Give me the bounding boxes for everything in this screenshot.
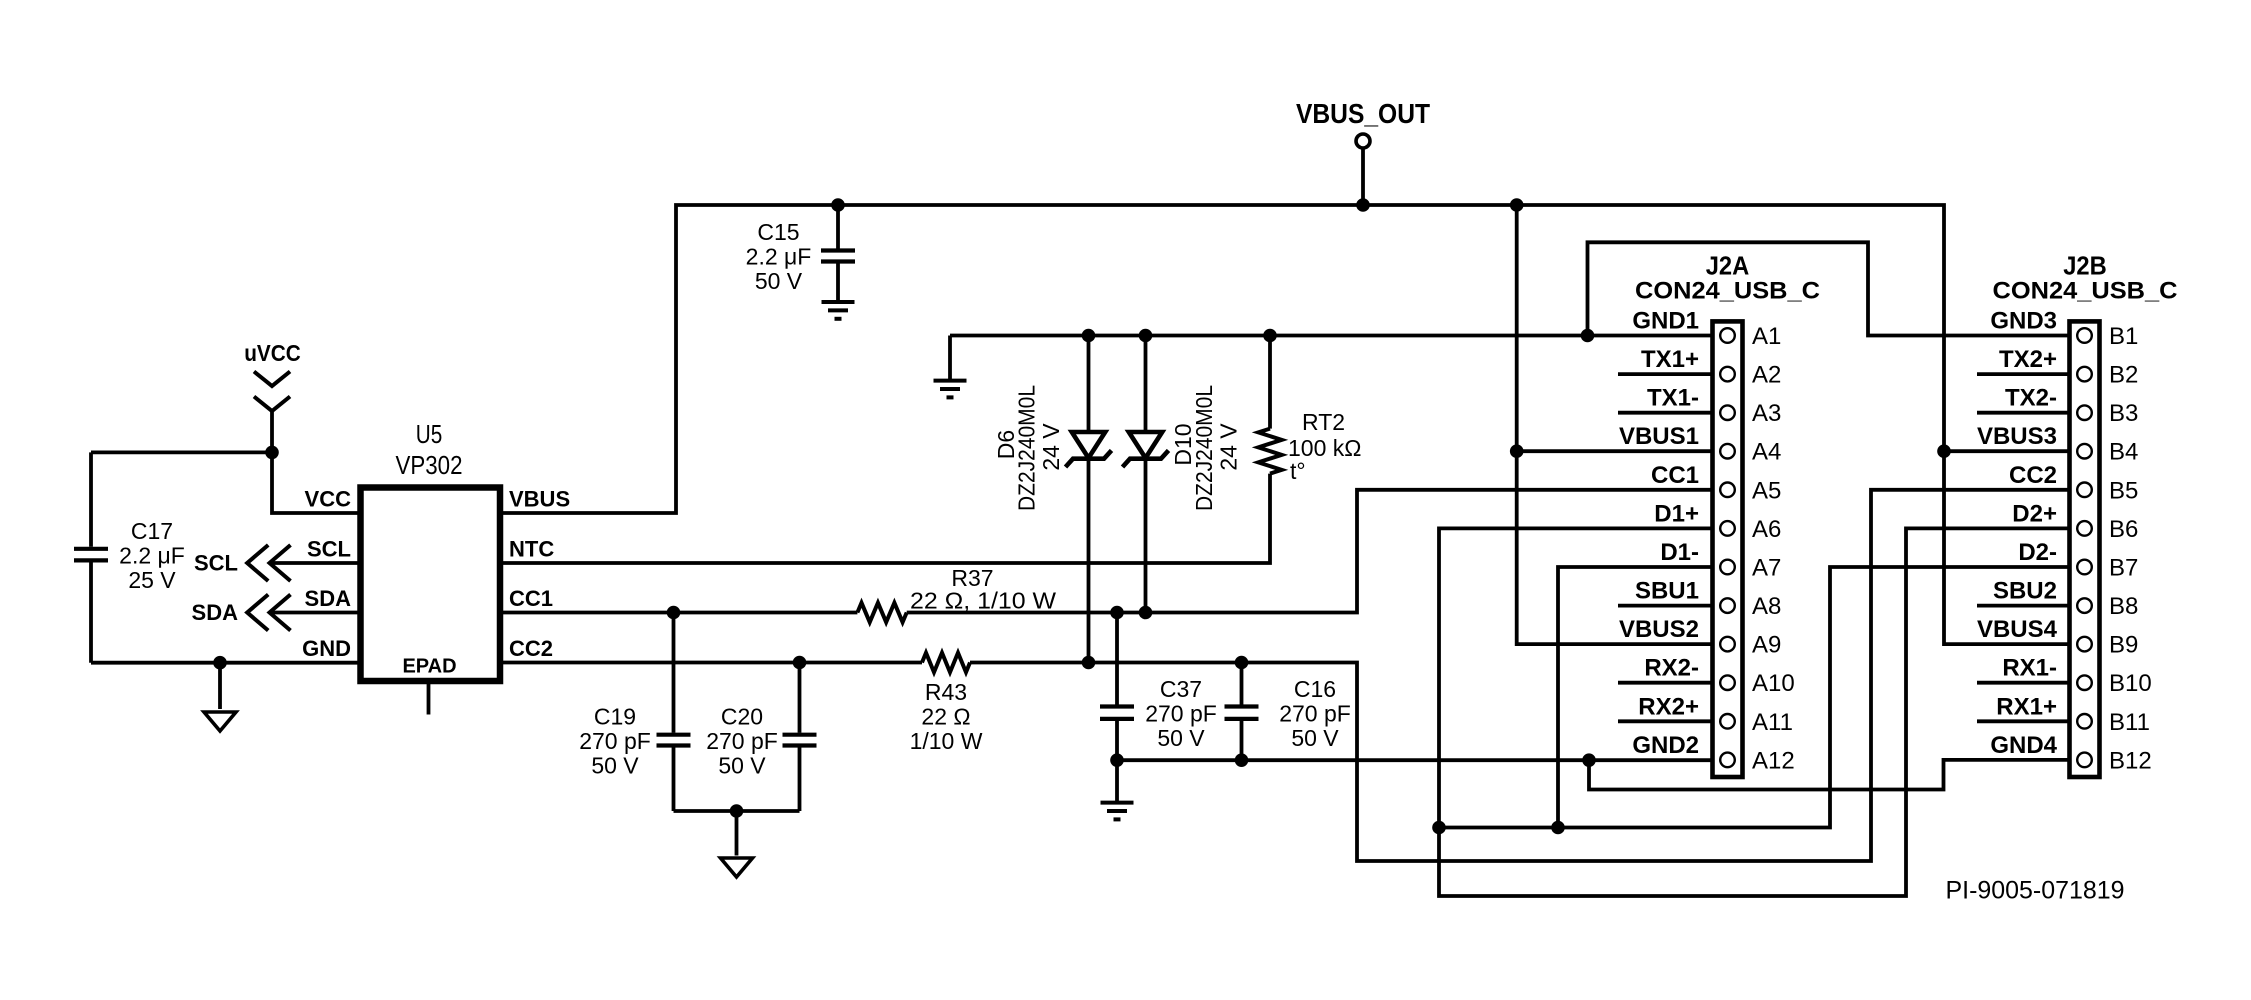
svg-text:SBU2: SBU2: [1993, 578, 2057, 605]
svg-text:A11: A11: [1752, 709, 1793, 736]
svg-text:270 pF: 270 pF: [1279, 701, 1351, 727]
svg-text:VCC: VCC: [305, 487, 352, 512]
svg-text:VBUS3: VBUS3: [1977, 423, 2057, 450]
svg-text:U5: U5: [416, 419, 443, 449]
svg-text:C37: C37: [1160, 676, 1202, 702]
svg-text:A3: A3: [1752, 400, 1781, 427]
svg-text:A9: A9: [1752, 632, 1781, 659]
svg-text:B1: B1: [2109, 323, 2138, 350]
svg-text:J2A: J2A: [1706, 251, 1750, 281]
svg-text:t°: t°: [1290, 458, 1306, 484]
svg-text:VBUS: VBUS: [509, 487, 570, 512]
svg-text:B2: B2: [2109, 362, 2138, 389]
svg-text:uVCC: uVCC: [244, 340, 301, 366]
svg-text:RT2: RT2: [1302, 409, 1345, 435]
svg-text:C19: C19: [594, 704, 636, 730]
svg-text:VBUS4: VBUS4: [1977, 616, 2058, 643]
svg-text:CON24_USB_C: CON24_USB_C: [1993, 278, 2178, 305]
svg-text:C17: C17: [131, 518, 173, 544]
svg-text:VP302: VP302: [396, 450, 463, 480]
svg-text:22 Ω, 1/10 W: 22 Ω, 1/10 W: [910, 588, 1056, 614]
svg-text:DZ2J240M0L: DZ2J240M0L: [1014, 385, 1040, 511]
svg-text:B12: B12: [2109, 747, 2152, 774]
svg-text:2.2 μF: 2.2 μF: [746, 244, 812, 270]
svg-text:GND1: GND1: [1632, 308, 1699, 335]
svg-text:TX2+: TX2+: [1999, 346, 2057, 373]
svg-text:RX2+: RX2+: [1638, 693, 1699, 720]
svg-text:TX2-: TX2-: [2005, 385, 2057, 412]
svg-text:SCL: SCL: [307, 537, 351, 562]
svg-text:A8: A8: [1752, 593, 1781, 620]
svg-text:NTC: NTC: [509, 537, 554, 562]
svg-text:GND4: GND4: [1990, 732, 2057, 759]
svg-text:SCL: SCL: [194, 551, 238, 576]
svg-text:2.2 μF: 2.2 μF: [119, 543, 185, 569]
svg-text:J2B: J2B: [2063, 251, 2107, 281]
svg-text:VBUS2: VBUS2: [1619, 616, 1699, 643]
svg-text:D2-: D2-: [2018, 539, 2057, 566]
svg-text:C20: C20: [721, 704, 763, 730]
svg-text:B10: B10: [2109, 670, 2152, 697]
svg-text:EPAD: EPAD: [402, 656, 456, 678]
svg-text:GND2: GND2: [1632, 732, 1699, 759]
svg-text:50 V: 50 V: [718, 753, 766, 779]
svg-text:B7: B7: [2109, 554, 2138, 581]
svg-text:B4: B4: [2109, 439, 2138, 466]
svg-text:CC1: CC1: [1651, 462, 1699, 489]
svg-text:SDA: SDA: [192, 600, 239, 625]
svg-text:A4: A4: [1752, 439, 1781, 466]
svg-text:D1+: D1+: [1654, 500, 1699, 527]
svg-text:A10: A10: [1752, 670, 1795, 697]
svg-text:D1-: D1-: [1660, 539, 1699, 566]
svg-text:270 pF: 270 pF: [579, 728, 651, 754]
svg-text:R43: R43: [925, 679, 967, 705]
svg-text:TX1+: TX1+: [1641, 346, 1699, 373]
svg-text:50 V: 50 V: [591, 753, 639, 779]
svg-text:TX1-: TX1-: [1647, 385, 1699, 412]
svg-text:C15: C15: [757, 219, 799, 245]
svg-text:RX1-: RX1-: [2002, 655, 2057, 682]
svg-text:GND: GND: [302, 636, 351, 661]
svg-text:D2+: D2+: [2012, 500, 2057, 527]
svg-text:270 pF: 270 pF: [706, 728, 778, 754]
svg-text:B11: B11: [2109, 709, 2150, 736]
svg-text:C16: C16: [1294, 676, 1336, 702]
svg-text:B5: B5: [2109, 477, 2138, 504]
svg-text:CON24_USB_C: CON24_USB_C: [1635, 278, 1820, 305]
svg-text:A5: A5: [1752, 477, 1781, 504]
svg-text:270 pF: 270 pF: [1145, 701, 1217, 727]
svg-text:CC2: CC2: [2009, 462, 2057, 489]
svg-text:VBUS1: VBUS1: [1619, 423, 1699, 450]
svg-text:PI-9005-071819: PI-9005-071819: [1946, 877, 2125, 905]
svg-text:50 V: 50 V: [755, 268, 803, 294]
svg-text:1/10 W: 1/10 W: [910, 728, 983, 754]
svg-text:A1: A1: [1752, 323, 1781, 350]
svg-text:SDA: SDA: [305, 586, 352, 611]
svg-text:CC1: CC1: [509, 586, 553, 611]
svg-text:A12: A12: [1752, 747, 1795, 774]
svg-text:A2: A2: [1752, 362, 1781, 389]
svg-text:24 V: 24 V: [1038, 423, 1064, 471]
svg-text:B3: B3: [2109, 400, 2138, 427]
svg-text:RX1+: RX1+: [1996, 693, 2057, 720]
svg-text:22 Ω: 22 Ω: [921, 704, 970, 730]
svg-text:B8: B8: [2109, 593, 2138, 620]
svg-text:A6: A6: [1752, 516, 1781, 543]
svg-text:24 V: 24 V: [1216, 423, 1242, 471]
svg-text:B9: B9: [2109, 632, 2138, 659]
svg-text:GND3: GND3: [1990, 308, 2057, 335]
svg-text:A7: A7: [1752, 554, 1781, 581]
svg-text:RX2-: RX2-: [1644, 655, 1699, 682]
svg-text:50 V: 50 V: [1291, 725, 1339, 751]
svg-text:SBU1: SBU1: [1635, 578, 1699, 605]
svg-text:VBUS_OUT: VBUS_OUT: [1296, 98, 1430, 129]
svg-text:B6: B6: [2109, 516, 2138, 543]
svg-text:DZ2J240M0L: DZ2J240M0L: [1191, 385, 1217, 511]
svg-text:CC2: CC2: [509, 636, 553, 661]
svg-text:50 V: 50 V: [1157, 725, 1205, 751]
svg-text:25 V: 25 V: [128, 567, 176, 593]
